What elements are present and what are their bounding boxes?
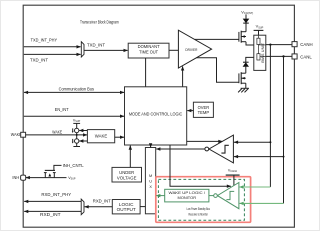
transistor Q2 (low side) bbox=[239, 72, 246, 84]
wire INH bbox=[26, 177, 67, 179]
ground (Q2 source) bbox=[238, 88, 249, 92]
svg-text:RXD_INT_PHY: RXD_INT_PHY bbox=[41, 192, 71, 197]
wire wake block to I2 bbox=[79, 140, 87, 142]
wire wake-up logic output to MUX (green) bbox=[156, 195, 164, 197]
svg-text:RXD_INT: RXD_INT bbox=[40, 212, 61, 217]
wire receiver CANL input bbox=[234, 156, 284, 158]
wire R1 to R2 bbox=[258, 45, 260, 54]
wire RXD_INT (left) bbox=[24, 210, 81, 212]
wire VSUP to current source I1 bbox=[76, 123, 78, 128]
svg-text:WAKE: WAKE bbox=[11, 132, 22, 137]
svg-text:INH: INH bbox=[12, 175, 19, 180]
wire CANL rail to diode D2 bbox=[246, 57, 254, 62]
wire under voltage to mode logic bbox=[129, 146, 131, 168]
svg-text:WAKE: WAKE bbox=[52, 130, 62, 135]
svg-text:TXD_INT: TXD_INT bbox=[87, 42, 105, 47]
supply bar VSUP (wake) bbox=[73, 122, 80, 124]
block MUX bbox=[145, 148, 155, 214]
wire communication bus (double arrow) bbox=[24, 91, 124, 93]
wire RXD_INT_PHY bbox=[24, 200, 81, 202]
diode D2 bbox=[243, 61, 249, 63]
svg-text:Communication Bus: Communication Bus bbox=[59, 87, 94, 92]
wire Q2 source to ground bbox=[245, 83, 247, 88]
pin INH bbox=[21, 175, 26, 180]
svg-text:U: U bbox=[149, 180, 152, 184]
current source I2 bbox=[75, 139, 79, 143]
diode D1 bbox=[243, 19, 250, 24]
splitter funnel (RXD) bbox=[81, 199, 84, 215]
wire D1 to Q1 drain bbox=[245, 23, 247, 32]
svg-text:Transceiver Block Diagram: Transceiver Block Diagram bbox=[80, 20, 119, 25]
wire TXD_INT bbox=[24, 53, 81, 55]
svg-text:TXD_INT: TXD_INT bbox=[30, 57, 48, 62]
transistor Q1 (high side) bbox=[239, 31, 246, 43]
block WAKE UP LOGIC / MONITOR bbox=[165, 189, 209, 202]
svg-text:INH_CNTL: INH_CNTL bbox=[63, 163, 85, 168]
svg-text:OUTPUT: OUTPUT bbox=[117, 207, 136, 212]
green dashed box bbox=[158, 179, 244, 220]
junction wake-up output (green) bbox=[158, 195, 160, 197]
svg-text:EN_INT: EN_INT bbox=[55, 107, 69, 112]
wire TXD_INT_PHY bbox=[24, 46, 81, 48]
junction CANL sense bbox=[282, 55, 284, 57]
wire mode logic to MUX bbox=[150, 145, 152, 147]
block LOGIC OUTPUT bbox=[112, 200, 140, 214]
wire VSUP to bias unit bbox=[258, 30, 260, 35]
wire WAKE block to mode logic bbox=[115, 136, 124, 138]
svg-text:BIAS UNIT: BIAS UNIT bbox=[261, 43, 265, 63]
svg-text:Receiver & Monitor: Receiver & Monitor bbox=[189, 212, 209, 216]
wire D2 to Q2 drain bbox=[245, 67, 247, 74]
supply bar VCANA bbox=[226, 174, 240, 176]
svg-text:Low Power Standby Bus: Low Power Standby Bus bbox=[187, 207, 210, 211]
svg-text:VSUP: VSUP bbox=[73, 118, 81, 123]
wire dominant timeout to driver bbox=[169, 49, 178, 51]
svg-text:WAKE: WAKE bbox=[95, 134, 108, 139]
wire U3 bubble to wake-up logic bbox=[209, 195, 214, 197]
block OVER TEMP bbox=[193, 102, 213, 117]
wire mode logic to driver enable bbox=[182, 66, 184, 86]
svg-text:WAKE UP LOGIC /: WAKE UP LOGIC / bbox=[169, 191, 207, 195]
wire R2 tap to CANL bbox=[260, 55, 266, 57]
hysteresis symbol U3 bbox=[226, 191, 234, 199]
red box: low power standby highlight bbox=[156, 177, 251, 223]
pin CANH bbox=[292, 42, 297, 47]
receiver comparator U2 bbox=[209, 135, 233, 163]
bubble U2 output bbox=[205, 147, 209, 151]
pin CANL bbox=[292, 54, 297, 59]
wire CANH bbox=[266, 44, 292, 46]
svg-text:VOLTAGE: VOLTAGE bbox=[117, 175, 137, 180]
svg-text:RXD_INT: RXD_INT bbox=[93, 199, 111, 204]
block DOMINANT TIME OUT bbox=[128, 43, 169, 58]
junction receiver CANL input bbox=[283, 156, 285, 158]
wire Q1 source to bias unit bbox=[246, 42, 254, 45]
resistor R1 (bias) bbox=[257, 38, 260, 44]
wire R1 tap to CANH bbox=[259, 44, 266, 46]
wire mode logic to wake-up logic (enable) bbox=[170, 145, 231, 186]
wire VCC to diode D1 bbox=[245, 14, 247, 18]
wire driver to low-side gate bbox=[196, 58, 238, 83]
svg-text:MODE AND CONTROL LOGIC: MODE AND CONTROL LOGIC bbox=[129, 112, 183, 117]
bubble U3 output bbox=[214, 194, 218, 198]
wire I1 to wake node bbox=[76, 133, 78, 139]
ground (I2) bbox=[73, 146, 80, 148]
svg-text:VCANA: VCANA bbox=[228, 168, 237, 173]
wire CANL sense vertical bbox=[283, 56, 285, 203]
wire dominant timeout to mode logic bbox=[145, 58, 147, 87]
resistor R2 (bias) bbox=[257, 54, 260, 60]
svg-text:VSUP: VSUP bbox=[68, 176, 76, 181]
wire driver to high-side gate bbox=[195, 38, 239, 40]
wire receiver CANH input bbox=[234, 141, 270, 143]
wire CANL bbox=[266, 55, 292, 57]
svg-text:UNDER: UNDER bbox=[119, 170, 134, 175]
svg-text:TXD_INT_PHY: TXD_INT_PHY bbox=[31, 38, 58, 43]
wire mode logic to receiver enable bbox=[187, 140, 223, 142]
junction wake node bbox=[76, 134, 78, 136]
junction CANH sense bbox=[269, 43, 271, 45]
current source I1 bbox=[75, 128, 79, 132]
svg-text:M: M bbox=[149, 174, 152, 178]
block BIAS UNIT bbox=[254, 35, 266, 70]
driver amplifier U1 bbox=[178, 30, 211, 68]
svg-text:LOGIC: LOGIC bbox=[119, 202, 134, 207]
block UNDER VOLTAGE bbox=[112, 167, 142, 182]
svg-text:TIME OUT: TIME OUT bbox=[139, 49, 158, 54]
wire CANH sense vertical bbox=[269, 45, 271, 187]
wire TXD_INT to dominant timeout bbox=[84, 49, 128, 51]
wire bias internal stem bbox=[258, 35, 260, 38]
junction receiver CANH input bbox=[269, 141, 271, 143]
transistor Q3 (INH switch) bbox=[44, 165, 62, 177]
combiner funnel (TXD mux symbol) bbox=[81, 42, 84, 57]
svg-text:CANH: CANH bbox=[300, 42, 312, 47]
wire wake block to I1 bbox=[79, 130, 87, 132]
svg-text:CANL: CANL bbox=[300, 54, 312, 59]
wire wake receiver CANH input (green) bbox=[240, 186, 271, 188]
wire RXD_INT to splitter bbox=[85, 206, 113, 208]
wire over temp to mode logic bbox=[187, 110, 193, 112]
wire I2 to ground bbox=[76, 143, 78, 146]
svg-text:DRIVER: DRIVER bbox=[185, 48, 197, 52]
hysteresis symbol U2 bbox=[221, 145, 228, 153]
wire WAKE bbox=[26, 134, 88, 136]
wire wake receiver CANL input (green) bbox=[240, 202, 284, 204]
block MODE AND CONTROL LOGIC bbox=[125, 87, 187, 145]
frame (transceiver boundary) bbox=[23, 5, 294, 227]
wire EN_INT bbox=[24, 115, 124, 117]
supply bar VSUP (bias) bbox=[254, 29, 264, 31]
wire receiver output to MUX bbox=[156, 148, 205, 150]
svg-text:MONITOR: MONITOR bbox=[178, 196, 197, 200]
wake receiver U3 (green) bbox=[217, 183, 239, 209]
wire logic output to MUX bbox=[140, 206, 145, 208]
pin WAKE bbox=[21, 132, 26, 137]
block WAKE bbox=[87, 130, 114, 143]
svg-text:TEMP: TEMP bbox=[198, 110, 210, 115]
wire VCANA to wake receiver bbox=[233, 175, 235, 186]
